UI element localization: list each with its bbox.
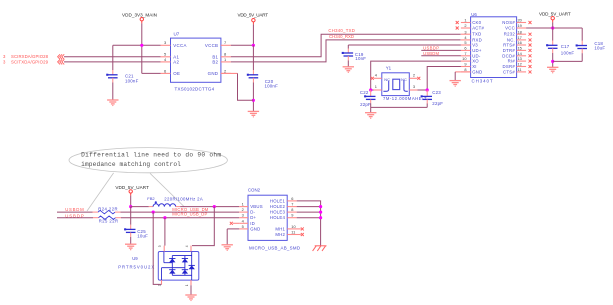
svg-text:GND: GND — [208, 71, 219, 76]
svg-text:HOLE4: HOLE4 — [270, 215, 286, 220]
svg-text:PRTR5V0U2X: PRTR5V0U2X — [118, 265, 154, 270]
svg-text:100nF: 100nF — [125, 78, 139, 83]
svg-text:10nF: 10nF — [355, 56, 366, 61]
svg-text:HOLE2: HOLE2 — [270, 204, 286, 209]
svg-text:VCCA: VCCA — [173, 43, 186, 48]
svg-text:1: 1 — [185, 284, 189, 286]
svg-text:VDD_5V_UART: VDD_5V_UART — [115, 185, 149, 190]
svg-text:HOLE1: HOLE1 — [270, 198, 286, 203]
svg-text:XI: XI — [472, 64, 477, 69]
svg-text:DSR#: DSR# — [503, 64, 516, 69]
svg-text:TXS0102DCTTG4: TXS0102DCTTG4 — [175, 87, 215, 92]
svg-text:VCC: VCC — [505, 26, 515, 31]
svg-text:GND: GND — [250, 226, 260, 231]
svg-text:impedance matching control: impedance matching control — [81, 161, 181, 168]
svg-text:DCD#: DCD# — [502, 53, 515, 58]
svg-text:VDD_5V_UART: VDD_5V_UART — [238, 13, 269, 18]
svg-text:9: 9 — [291, 213, 293, 218]
svg-text:4: 4 — [185, 245, 189, 247]
svg-text:CH340_TXD: CH340_TXD — [328, 28, 354, 33]
svg-text:UD+: UD+ — [472, 48, 482, 53]
svg-text:3: 3 — [158, 245, 162, 247]
svg-text:Y1: Y1 — [386, 65, 392, 70]
svg-text:9: 9 — [464, 62, 466, 67]
svg-text:A2: A2 — [173, 60, 179, 65]
svg-text:19: 19 — [518, 23, 522, 28]
svg-text:ID: ID — [250, 221, 255, 226]
svg-text:C17: C17 — [561, 44, 570, 49]
svg-text:U7: U7 — [174, 32, 180, 37]
svg-text:22pF: 22pF — [360, 102, 371, 107]
svg-text:XO: XO — [472, 59, 479, 64]
svg-text:VBUS: VBUS — [250, 204, 263, 209]
svg-text:18: 18 — [518, 29, 522, 34]
svg-text:3: 3 — [413, 84, 415, 89]
svg-text:D-: D- — [250, 210, 255, 215]
svg-text:R25 22R: R25 22R — [99, 219, 118, 224]
svg-text:CH340_RXD: CH340_RXD — [329, 34, 354, 39]
svg-text:VDD_5V_UART: VDD_5V_UART — [539, 12, 571, 17]
svg-text:7: 7 — [464, 51, 466, 56]
svg-text:MH1: MH1 — [275, 226, 285, 231]
svg-text:1: 1 — [375, 84, 377, 89]
svg-text:MH2: MH2 — [275, 232, 285, 237]
svg-text:CK0: CK0 — [472, 20, 481, 25]
svg-text:11: 11 — [291, 230, 295, 235]
svg-text:1: 1 — [242, 202, 244, 207]
svg-text:C22: C22 — [360, 90, 369, 95]
svg-text:6: 6 — [291, 196, 293, 201]
svg-text:DTR#: DTR# — [503, 48, 516, 53]
svg-text:MICRO_USB_AB_SMD: MICRO_USB_AB_SMD — [249, 245, 300, 250]
svg-text:5: 5 — [242, 224, 244, 229]
svg-text:2: 2 — [242, 207, 244, 212]
svg-text:220R/100MHz 2A: 220R/100MHz 2A — [164, 196, 203, 201]
svg-text:B2: B2 — [212, 60, 218, 65]
svg-text:R24 22R: R24 22R — [98, 207, 117, 212]
svg-text:USBDP: USBDP — [423, 46, 439, 51]
svg-text:HOLE3: HOLE3 — [270, 210, 286, 215]
svg-text:16: 16 — [518, 40, 522, 45]
svg-text:22pF: 22pF — [432, 101, 443, 106]
svg-text:RI#: RI# — [508, 59, 516, 64]
svg-text:CON2: CON2 — [248, 188, 261, 193]
svg-text:USBDM: USBDM — [65, 207, 84, 212]
svg-text:100nF: 100nF — [265, 83, 279, 88]
svg-text:7M-12.000MAHE-T: 7M-12.000MAHE-T — [383, 96, 427, 101]
svg-text:UD-: UD- — [472, 53, 481, 58]
svg-text:13: 13 — [518, 56, 522, 61]
svg-text:15: 15 — [518, 46, 522, 51]
svg-text:U6: U6 — [471, 12, 477, 17]
svg-text:OE: OE — [173, 71, 180, 76]
svg-text:Differential line need to do 9: Differential line need to do 90 ohm — [81, 152, 221, 159]
svg-text:8: 8 — [464, 67, 466, 72]
svg-text:RTS#: RTS# — [503, 43, 515, 48]
svg-text:ACT#: ACT# — [472, 26, 484, 31]
svg-text:V3: V3 — [472, 43, 478, 48]
svg-text:VCCB: VCCB — [205, 43, 218, 48]
svg-text:MICRO_USB_DP: MICRO_USB_DP — [172, 211, 207, 216]
svg-text:5: 5 — [464, 40, 466, 45]
svg-text:CH340T: CH340T — [472, 79, 493, 84]
svg-text:GND: GND — [472, 69, 482, 74]
svg-text:VDD_3V3_MAIN: VDD_3V3_MAIN — [122, 13, 157, 18]
svg-text:SCITXDA/GPIO29: SCITXDA/GPIO29 — [11, 59, 49, 64]
svg-text:D+: D+ — [250, 215, 256, 220]
svg-text:U9: U9 — [132, 256, 138, 261]
svg-text:TXD: TXD — [472, 32, 481, 37]
svg-text:6: 6 — [464, 46, 466, 51]
svg-text:10uF: 10uF — [594, 45, 605, 50]
svg-text:100nF: 100nF — [561, 51, 575, 56]
svg-text:2: 2 — [464, 23, 466, 28]
svg-text:2: 2 — [413, 73, 415, 78]
svg-text:10uF: 10uF — [137, 234, 148, 239]
svg-text:12: 12 — [518, 62, 522, 67]
svg-text:C23: C23 — [432, 90, 441, 95]
svg-text:1: 1 — [464, 18, 466, 23]
svg-text:3: 3 — [464, 29, 466, 34]
svg-text:3: 3 — [242, 213, 244, 218]
svg-text:8: 8 — [291, 207, 293, 212]
svg-text:7: 7 — [291, 202, 293, 207]
svg-text:11: 11 — [518, 67, 522, 72]
svg-text:R232: R232 — [504, 32, 516, 37]
svg-text:FB2: FB2 — [147, 196, 155, 201]
svg-text:NOS#: NOS# — [502, 20, 515, 25]
svg-text:USBDM: USBDM — [423, 51, 439, 56]
svg-text:CTS#: CTS# — [503, 69, 515, 74]
